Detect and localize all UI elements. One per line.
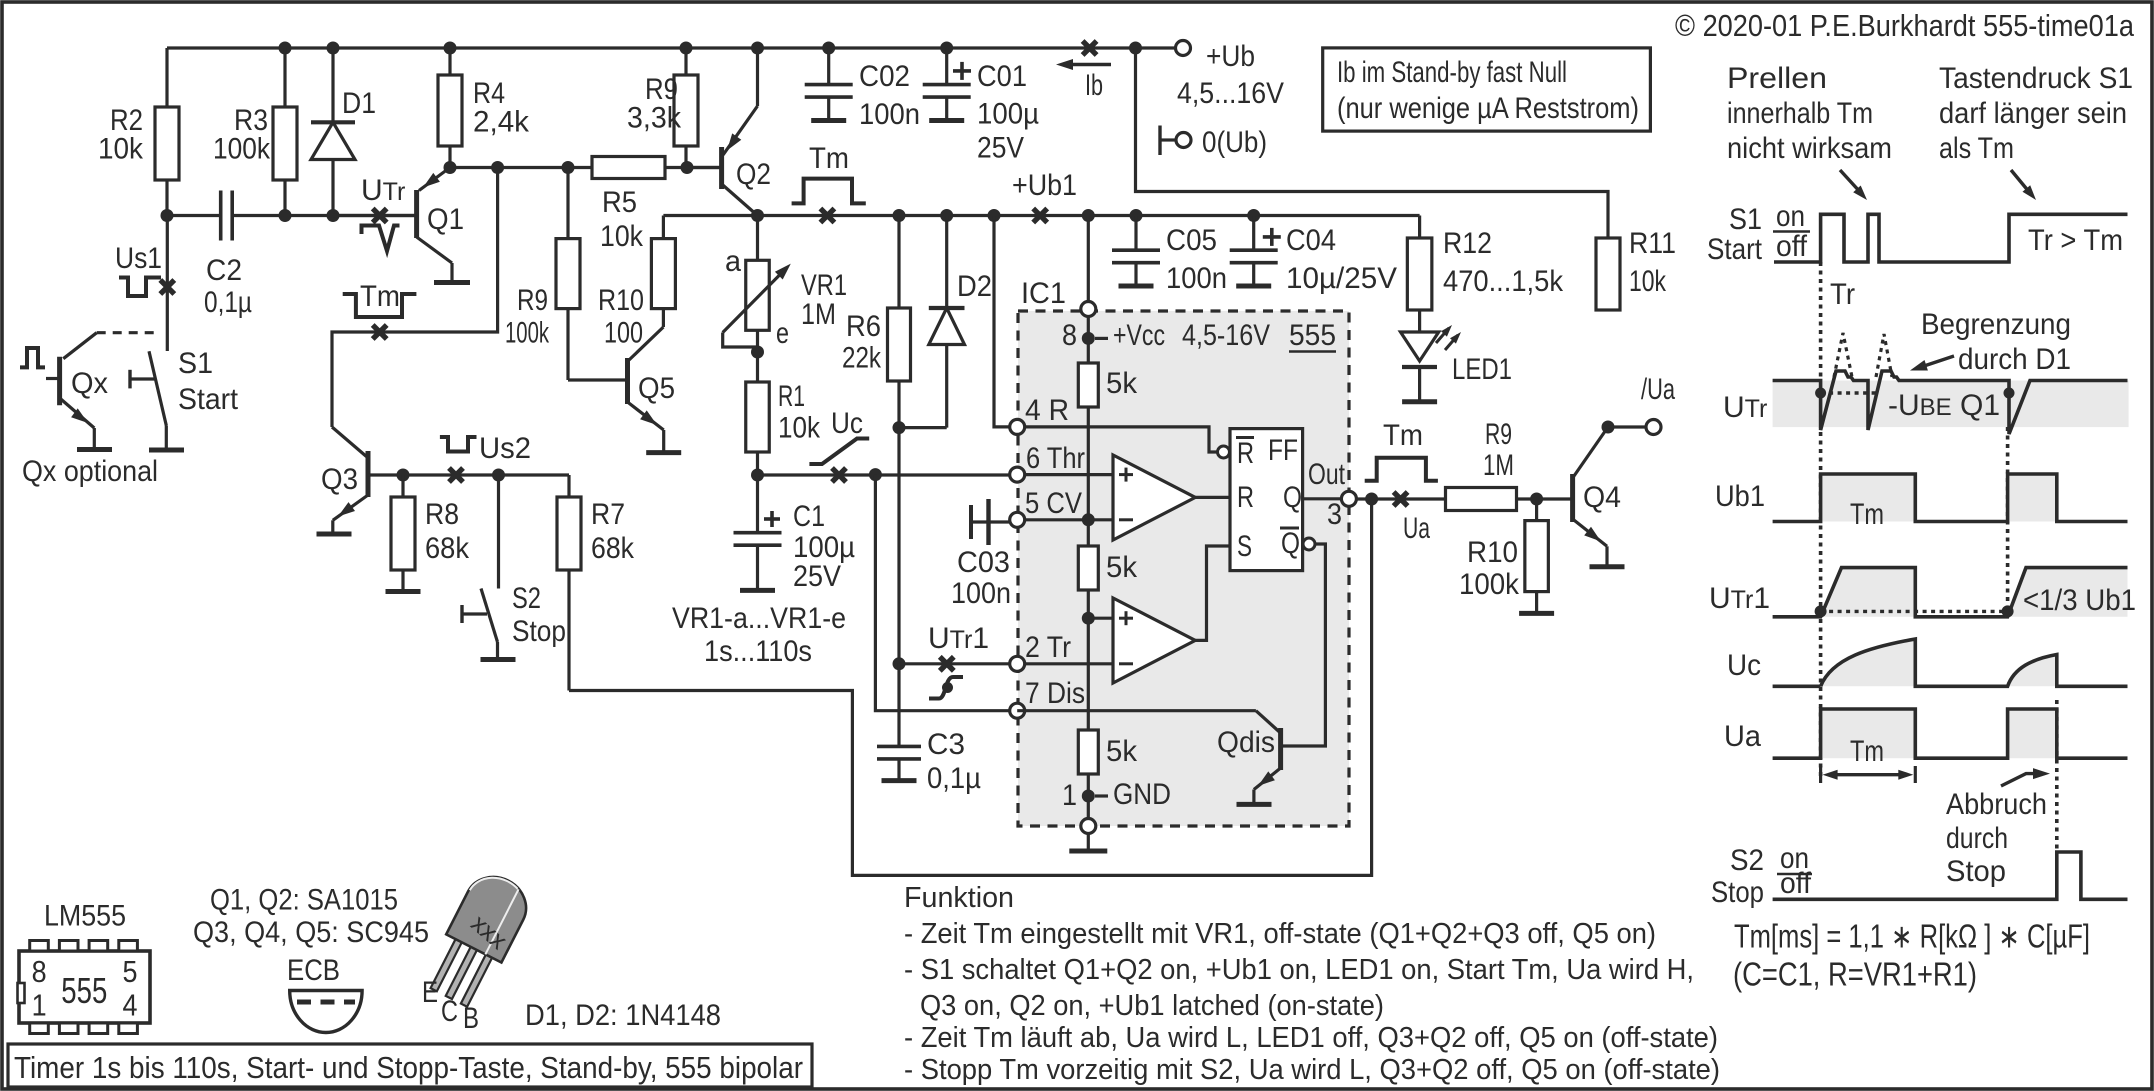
- svg-text:als Tm: als Tm: [1939, 132, 2014, 165]
- svg-text:+Ub: +Ub: [1206, 40, 1255, 73]
- measure point +Ub1: [1033, 209, 1047, 223]
- svg-text:Q2: Q2: [736, 158, 771, 191]
- svg-text:LM555: LM555: [44, 900, 126, 933]
- resistor R9 1M: [1446, 488, 1517, 511]
- svg-text:4,5-16V: 4,5-16V: [1182, 319, 1270, 352]
- svg-text:7 Dis: 7 Dis: [1025, 677, 1085, 710]
- resistor R9 3k3: [684, 48, 687, 168]
- svg-text:R9: R9: [1485, 418, 1512, 451]
- svg-text:Qdis: Qdis: [1217, 726, 1275, 759]
- svg-text:© 2020-01 P.E.Burkhardt 555-ti: © 2020-01 P.E.Burkhardt 555-time01a: [1675, 8, 2135, 43]
- svg-text:R: R: [1237, 437, 1254, 470]
- svg-text:1s...110s: 1s...110s: [704, 635, 812, 668]
- svg-text:S1: S1: [178, 347, 213, 380]
- node R4 top: [444, 42, 457, 55]
- svg-text:Tr: Tr: [1830, 278, 1855, 311]
- measure point Us2: [449, 468, 463, 482]
- svg-text:R: R: [1237, 481, 1254, 514]
- waveform UTr: [1773, 371, 2128, 434]
- wire +Ub top rail: [167, 46, 1176, 49]
- capacitor C03: [969, 505, 973, 539]
- svg-text:Q5: Q5: [638, 372, 675, 405]
- wire Out to Q4: [1356, 497, 1572, 500]
- resistor R3: [283, 48, 286, 216]
- resistor R5: [592, 157, 665, 179]
- svg-text:S2: S2: [1730, 844, 1764, 877]
- waveform symbol UTr1 sigmoid: [929, 677, 963, 699]
- svg-text:5k: 5k: [1106, 367, 1138, 400]
- svg-text:470...1,5k: 470...1,5k: [1443, 265, 1564, 298]
- comparator threshold: [1113, 455, 1195, 540]
- svg-text:e: e: [776, 317, 789, 350]
- node D1 top: [327, 42, 340, 55]
- pin 4 R: [1010, 419, 1025, 434]
- wire +Ub to R11: [1136, 48, 1609, 238]
- pin 5 CV: [1010, 512, 1025, 527]
- switch S2 Stop: [497, 475, 500, 589]
- transistor Q5: [568, 378, 628, 381]
- svg-text:Q1, Q2: SA1015: Q1, Q2: SA1015: [210, 884, 398, 917]
- terminal 0(Ub): [1158, 126, 1161, 156]
- svg-text:S1: S1: [1729, 203, 1762, 236]
- svg-text:a: a: [725, 245, 741, 278]
- node D2 top: [940, 209, 953, 222]
- svg-text:25V: 25V: [793, 560, 841, 593]
- svg-text:D1: D1: [342, 87, 376, 120]
- svg-text:Q1: Q1: [427, 203, 464, 236]
- waveform S2: [1773, 852, 2128, 899]
- arrow to bounce: [1840, 170, 1861, 193]
- svg-text:off: off: [1780, 867, 1812, 900]
- svg-text:Stop: Stop: [512, 615, 566, 648]
- svg-text:1M: 1M: [801, 298, 836, 331]
- svg-text:Q: Q: [1281, 527, 1300, 560]
- measure point UTr: [373, 209, 387, 223]
- wire Qbar to Qdis: [1281, 544, 1326, 746]
- waveform symbol Us2 pulse: [440, 437, 477, 452]
- svg-text:Begrenzung: Begrenzung: [1921, 308, 2071, 341]
- svg-text:Tm: Tm: [1850, 498, 1884, 531]
- svg-text:0(Ub): 0(Ub): [1202, 126, 1267, 159]
- waveform symbol Us1 pulse: [119, 278, 161, 297]
- inversion bubble FF R: [1218, 446, 1230, 458]
- transistor Q2: [687, 166, 722, 169]
- waveform symbol UTr spike: [362, 226, 400, 252]
- package TO-92 drawing: [421, 867, 536, 1012]
- svg-text:Q3 on, Q2 on, +Ub1 latched (on: Q3 on, Q2 on, +Ub1 latched (on-state): [920, 990, 1384, 1022]
- svg-text:Q3: Q3: [321, 463, 358, 496]
- svg-text:R7: R7: [591, 498, 625, 531]
- svg-text:nicht wirksam: nicht wirksam: [1727, 132, 1892, 165]
- transistor Q4: [1570, 474, 1575, 522]
- wire Us1 branch: [166, 216, 169, 352]
- svg-text:Qx: Qx: [71, 367, 108, 400]
- svg-text:Tm: Tm: [809, 142, 849, 175]
- svg-text:(nur wenige µA Reststrom): (nur wenige µA Reststrom): [1337, 92, 1639, 125]
- svg-text:Q3, Q4, Q5: SC945: Q3, Q4, Q5: SC945: [193, 916, 429, 949]
- capacitor C3: [897, 664, 900, 747]
- guide dotted stop: [2055, 700, 2059, 851]
- svg-text:darf länger sein: darf länger sein: [1939, 97, 2127, 130]
- svg-text:C: C: [441, 995, 458, 1028]
- svg-text:Tm: Tm: [1850, 735, 1884, 768]
- wire Tr branch: [897, 428, 900, 664]
- diode D2: [945, 216, 948, 428]
- svg-text:Ua: Ua: [1724, 720, 1761, 753]
- IC internal 5k chain: [1087, 309, 1090, 826]
- wire base line y167: [450, 166, 722, 169]
- svg-text:GND: GND: [1113, 778, 1171, 811]
- pin 8 +Vcc: [1081, 302, 1096, 317]
- terminal +Ub: [1176, 41, 1191, 56]
- waveform symbol Uc ramp: [809, 439, 869, 465]
- svg-text:- Zeit Tm eingestellt mit VR1,: - Zeit Tm eingestellt mit VR1, off-state…: [904, 918, 1656, 950]
- current arrow Ib: [1071, 63, 1111, 66]
- svg-text:Stop: Stop: [1711, 876, 1764, 909]
- wire Tm line to Q3: [332, 168, 498, 428]
- transistor Qdis: [1017, 709, 1256, 712]
- svg-text:1: 1: [32, 988, 47, 1023]
- svg-text:Timer 1s bis 110s, Start- und: Timer 1s bis 110s, Start- und Stopp-Tast…: [14, 1050, 803, 1085]
- resistor R10 100k: [1535, 499, 1538, 612]
- svg-text:8: 8: [32, 954, 47, 989]
- waveform symbol Tm pulse: [792, 179, 866, 204]
- svg-text:Tm: Tm: [1383, 419, 1423, 452]
- svg-text:4 R: 4 R: [1025, 394, 1069, 427]
- capacitor C2: [219, 191, 223, 241]
- resistor R10 100: [662, 216, 665, 328]
- svg-text:Qx optional: Qx optional: [22, 455, 158, 488]
- node C05 top: [1130, 209, 1143, 222]
- dotted level 1/3Ub1: [1821, 610, 2008, 613]
- svg-text:B: B: [463, 1002, 479, 1035]
- wire reset to FF: [1025, 427, 1217, 452]
- ground C3: [882, 778, 917, 783]
- svg-text:10k: 10k: [600, 220, 644, 253]
- waveform symbol Tm negative pulse: [343, 294, 417, 317]
- measure point on +Ub rail: [1083, 41, 1097, 55]
- node +Ub junction: [1129, 42, 1142, 55]
- ground IC: [1069, 849, 1107, 854]
- ground Qdis: [1237, 802, 1272, 807]
- ground R8: [386, 589, 421, 594]
- waveform Ub1 fills: [1821, 474, 1916, 522]
- svg-text:R5: R5: [602, 186, 637, 219]
- inversion bubble Qbar: [1303, 538, 1315, 550]
- svg-text:5k: 5k: [1106, 735, 1138, 768]
- svg-text:- Stopp Tm vorzeitig mit S2, U: - Stopp Tm vorzeitig mit S2, Ua wird L, …: [904, 1054, 1720, 1086]
- node C02 top: [822, 42, 835, 55]
- svg-text:R9: R9: [517, 284, 548, 317]
- arrow to long press: [2011, 170, 2030, 193]
- svg-text:22k: 22k: [842, 342, 882, 375]
- svg-text:LED1: LED1: [1452, 353, 1512, 386]
- ground C04: [1236, 284, 1271, 289]
- svg-text:S: S: [1237, 530, 1252, 563]
- ground C02: [811, 118, 846, 123]
- svg-text:100µ: 100µ: [977, 98, 1039, 131]
- svg-text:off: off: [1776, 230, 1808, 263]
- wire Q to out: [1303, 497, 1342, 500]
- svg-text:C03: C03: [957, 546, 1010, 579]
- measure point Tm: [373, 325, 387, 339]
- svg-text:Start: Start: [1707, 233, 1763, 266]
- svg-text:R10: R10: [1467, 536, 1518, 569]
- svg-text:innerhalb Tm: innerhalb Tm: [1727, 97, 1873, 130]
- pin 6 Thr: [1010, 467, 1025, 482]
- svg-text:Q4: Q4: [1583, 481, 1621, 514]
- pin 1 GND: [1082, 790, 1095, 803]
- ground S2: [481, 657, 516, 662]
- transistor Q3: [332, 427, 367, 457]
- svg-text:D2: D2: [957, 270, 992, 303]
- node /Ua: [1602, 421, 1615, 434]
- svg-text:3: 3: [1327, 498, 1342, 531]
- svg-text:Ua: Ua: [1403, 512, 1430, 545]
- svg-text:UTr1: UTr1: [1709, 582, 1770, 615]
- svg-text:(C=C1, R=VR1+R1): (C=C1, R=VR1+R1): [1733, 956, 1977, 993]
- svg-text:Us2: Us2: [479, 432, 531, 465]
- node Q2 collector / VR1: [751, 209, 764, 222]
- ground C01: [929, 118, 964, 123]
- resistor R6: [897, 216, 900, 428]
- wire pin4 branch: [994, 216, 1010, 427]
- pin 7 Dis: [1010, 703, 1025, 718]
- pin 2 Tr: [1010, 656, 1025, 671]
- measure point Tm on +Ub1: [820, 209, 834, 223]
- svg-text:555: 555: [61, 970, 107, 1011]
- svg-text:Stop: Stop: [1946, 855, 2006, 888]
- svg-text:Tr > Tm: Tr > Tm: [2028, 224, 2123, 257]
- svg-text:C1: C1: [793, 500, 825, 533]
- waveform symbol Tm pulse out: [1365, 458, 1438, 481]
- svg-text:Q: Q: [1283, 481, 1302, 514]
- flip-flop FF: [1230, 429, 1303, 571]
- svg-text:Funktion: Funktion: [904, 882, 1014, 914]
- svg-text:1M: 1M: [1483, 449, 1514, 482]
- svg-text:R12: R12: [1443, 227, 1492, 260]
- resistor R12: [1418, 216, 1421, 333]
- svg-text:4: 4: [123, 988, 138, 1023]
- guide dotted Tr: [1819, 262, 1823, 777]
- svg-text:8: 8: [1062, 319, 1077, 352]
- ground Q4: [1590, 564, 1625, 569]
- node Q2 emitter top: [751, 42, 764, 55]
- svg-text:100: 100: [604, 317, 643, 350]
- capacitor C04: [1252, 216, 1255, 251]
- svg-text:Ib im Stand-by fast Null: Ib im Stand-by fast Null: [1337, 56, 1567, 89]
- svg-text:100k: 100k: [213, 133, 271, 166]
- svg-text:- Zeit Tm läuft ab, Ua wird L,: - Zeit Tm läuft ab, Ua wird L, LED1 off,…: [904, 1022, 1718, 1054]
- transistor Qx: [97, 331, 159, 334]
- diode D1: [331, 48, 334, 216]
- dotted spikes UTr: [1834, 333, 1852, 377]
- transistor Q1: [419, 168, 450, 191]
- svg-text:E: E: [422, 976, 438, 1009]
- wire pin8 branch: [1087, 216, 1090, 302]
- svg-text:D1, D2: 1N4148: D1, D2: 1N4148: [525, 999, 721, 1032]
- svg-text:555: 555: [1289, 319, 1336, 352]
- node R6/D2: [893, 421, 906, 434]
- ground LED1: [1402, 399, 1437, 404]
- resistor R11: [1596, 238, 1620, 310]
- svg-text:C2: C2: [206, 254, 242, 287]
- node R3 top: [279, 42, 292, 55]
- svg-text:6 Thr: 6 Thr: [1026, 442, 1085, 475]
- svg-text:68k: 68k: [425, 532, 470, 565]
- waveform UTr1: [1773, 568, 2128, 617]
- svg-text:durch: durch: [1946, 822, 2008, 855]
- wire Thr-Dis tie: [875, 475, 1010, 711]
- svg-text:C04: C04: [1286, 224, 1336, 257]
- svg-text:2,4k: 2,4k: [473, 106, 530, 139]
- svg-text:R1: R1: [778, 380, 805, 413]
- svg-text:100n: 100n: [859, 98, 920, 131]
- svg-text:on: on: [1776, 200, 1805, 233]
- waveform UTr band: [1773, 381, 2129, 428]
- svg-text:VR1-a...VR1-e: VR1-a...VR1-e: [672, 602, 846, 635]
- waveform UTr1 fills: [1821, 568, 1916, 617]
- waveform Ub1: [1773, 474, 2128, 522]
- svg-text:Uc: Uc: [1727, 649, 1761, 682]
- node pin8 branch: [1082, 209, 1095, 222]
- svg-text:5: 5: [123, 954, 138, 989]
- comparator trigger: [1113, 598, 1195, 683]
- measure point Ua: [1394, 492, 1408, 506]
- waveform Ua fills: [1821, 709, 1916, 758]
- resistor R8: [401, 475, 404, 590]
- resistor R7: [567, 475, 570, 691]
- waveform Uc fills: [1821, 639, 1916, 686]
- svg-text:UTr: UTr: [1723, 391, 1767, 424]
- node pin4 branch: [988, 209, 1001, 222]
- svg-text:68k: 68k: [591, 532, 635, 565]
- resistor 5k middle: [1078, 546, 1098, 590]
- resistor R1: [746, 382, 770, 452]
- terminal /Ua: [1646, 420, 1661, 435]
- svg-text:R11: R11: [1629, 227, 1676, 260]
- svg-text:C01: C01: [977, 60, 1027, 93]
- svg-text:Ub1: Ub1: [1715, 480, 1765, 513]
- svg-text:Tm: Tm: [360, 280, 400, 313]
- resistor R9 100k: [566, 168, 569, 381]
- ground C05: [1119, 284, 1154, 289]
- svg-text:10k: 10k: [98, 133, 144, 166]
- svg-text:Abbruch: Abbruch: [1946, 788, 2047, 821]
- dimension arrow Tm: [1828, 773, 1908, 776]
- svg-text:Prellen: Prellen: [1727, 62, 1827, 95]
- wire Thr line: [758, 473, 1011, 476]
- svg-text:100k: 100k: [505, 317, 550, 350]
- svg-text:10k: 10k: [778, 412, 821, 445]
- measure point UTr1: [940, 657, 954, 671]
- box Ib standby note: [1323, 48, 1651, 131]
- title box: [8, 1044, 812, 1087]
- svg-text:Us1: Us1: [115, 242, 162, 275]
- svg-text:Out: Out: [1308, 458, 1346, 491]
- ground Q5: [646, 450, 681, 455]
- ground C1: [740, 588, 775, 593]
- svg-text:/Ua: /Ua: [1641, 373, 1675, 406]
- pin 3 Out: [1341, 491, 1356, 506]
- svg-text:Start: Start: [178, 383, 239, 416]
- resistor 5k lower: [1078, 730, 1098, 774]
- dotted level -UBE: [1821, 391, 1879, 394]
- svg-text:0,1µ: 0,1µ: [927, 762, 981, 795]
- svg-text:IC1: IC1: [1021, 277, 1066, 310]
- svg-text:durch D1: durch D1: [1958, 343, 2071, 376]
- svg-text:C3: C3: [927, 728, 965, 761]
- svg-text:Uc: Uc: [831, 407, 863, 440]
- wire Q3 base line: [368, 473, 569, 476]
- svg-text:100n: 100n: [951, 577, 1011, 610]
- svg-text:Tastendruck S1: Tastendruck S1: [1939, 62, 2133, 95]
- svg-text:C02: C02: [859, 60, 910, 93]
- svg-text:100n: 100n: [1166, 262, 1227, 295]
- svg-text:R8: R8: [425, 498, 459, 531]
- svg-text:2 Tr: 2 Tr: [1025, 631, 1071, 664]
- LED LED1: [1401, 332, 1439, 361]
- resistor 5k upper: [1078, 363, 1098, 407]
- svg-text:Tm[ms] = 1,1 ∗ R[kΩ ] ∗ C[µF]: Tm[ms] = 1,1 ∗ R[kΩ ] ∗ C[µF]: [1734, 918, 2090, 955]
- waveform Uc: [1773, 684, 1821, 688]
- svg-text:5 CV: 5 CV: [1025, 487, 1082, 520]
- ground Q1: [434, 280, 470, 285]
- svg-text:UTr1: UTr1: [928, 622, 989, 655]
- capacitor C01: [945, 48, 948, 85]
- resistor R2: [165, 48, 168, 216]
- IC U1 555 outline: [1018, 311, 1349, 826]
- svg-text:+Vcc: +Vcc: [1113, 319, 1165, 352]
- capacitor C05: [1134, 216, 1137, 251]
- wire R7 to Ua feedback: [569, 499, 1372, 875]
- svg-text:100k: 100k: [1459, 568, 1520, 601]
- svg-text:5k: 5k: [1106, 551, 1138, 584]
- resistor R4: [448, 48, 451, 168]
- wire +Ub1 rail: [663, 214, 1419, 217]
- node C04 top: [1247, 209, 1260, 222]
- measure point Us1: [160, 280, 174, 294]
- node R1/C1/Thr: [751, 469, 764, 482]
- wire C2 line: [167, 214, 221, 217]
- ground R10: [1519, 611, 1554, 616]
- svg-text:UTr: UTr: [361, 174, 405, 207]
- switch S1 Start: [149, 351, 166, 425]
- svg-text:10µ/25V: 10µ/25V: [1286, 262, 1397, 295]
- node R9 top: [680, 42, 693, 55]
- arrow abort: [2001, 774, 2043, 786]
- svg-text:<1/3 Ub1: <1/3 Ub1: [2023, 584, 2136, 617]
- svg-text:ECB: ECB: [287, 954, 340, 987]
- svg-text:0,1µ: 0,1µ: [204, 286, 252, 319]
- measure point Uc: [832, 468, 846, 482]
- svg-text:C05: C05: [1166, 224, 1217, 257]
- svg-text:R6: R6: [846, 310, 881, 343]
- svg-text:R10: R10: [598, 284, 644, 317]
- svg-text:4,5...16V: 4,5...16V: [1177, 77, 1284, 110]
- svg-text:+Ub1: +Ub1: [1012, 169, 1077, 202]
- svg-text:FF: FF: [1268, 434, 1298, 467]
- guide dotted second start: [2006, 427, 2010, 613]
- ground Q3: [317, 532, 352, 537]
- svg-text:10k: 10k: [1629, 265, 1667, 298]
- node C01 top: [940, 42, 953, 55]
- node R6 top: [893, 209, 906, 222]
- svg-text:3,3k: 3,3k: [627, 102, 682, 135]
- svg-text:S2: S2: [512, 582, 541, 615]
- svg-text:Ib: Ib: [1085, 69, 1103, 102]
- svg-text:-UBE Q1: -UBE Q1: [1888, 389, 2000, 422]
